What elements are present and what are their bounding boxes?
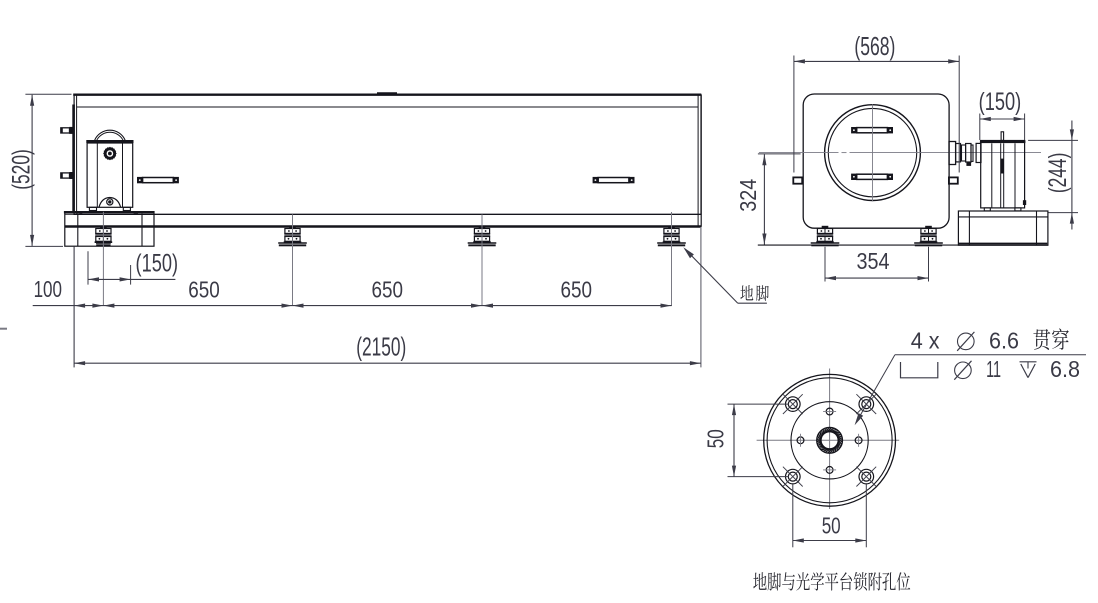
bottom bracket — [99, 198, 121, 208]
svg-text:50: 50 — [703, 429, 729, 448]
ground line — [758, 244, 1048, 246]
end feet — [822, 226, 829, 229]
svg-text:650: 650 — [372, 276, 404, 302]
left tab upper — [61, 128, 70, 133]
dim (150) pump — [979, 114, 981, 141]
dim (520) vertical — [25, 93, 71, 95]
leader di-jiao (foot) — [685, 249, 738, 303]
slot upper — [851, 127, 857, 133]
dim 354 — [824, 247, 826, 282]
svg-text:100: 100 — [34, 276, 62, 302]
svg-text:324: 324 — [735, 179, 761, 212]
pump base — [958, 211, 1048, 245]
window inner circle — [828, 108, 916, 196]
svg-text:50: 50 — [822, 513, 841, 539]
foot 2 — [289, 226, 296, 229]
hole callout leader — [856, 355, 895, 423]
base rail — [65, 213, 701, 215]
window outer circle — [825, 105, 921, 201]
svg-text:(2150): (2150) — [356, 332, 406, 362]
bolt holes — [786, 397, 801, 412]
end tab right — [949, 177, 958, 183]
svg-text:(568): (568) — [854, 31, 895, 61]
dome feet — [89, 207, 96, 210]
svg-text:11: 11 — [986, 356, 1001, 382]
connector stack — [949, 142, 956, 165]
svg-text:650: 650 — [188, 276, 220, 302]
svg-text:(150): (150) — [979, 88, 1022, 116]
dim (568) — [793, 56, 795, 173]
foot 3 — [479, 226, 486, 229]
end tab left — [793, 177, 802, 183]
handle right — [593, 177, 599, 183]
foot 4 — [668, 226, 675, 229]
svg-text:(150): (150) — [136, 249, 179, 277]
pump top stub — [1001, 132, 1004, 141]
pump connector box — [1023, 200, 1026, 205]
left mounting plate — [72, 105, 75, 213]
svg-text:(520): (520) — [8, 149, 36, 190]
dim 50 bottom — [792, 484, 794, 547]
handle left — [137, 177, 143, 183]
center hub — [817, 427, 843, 453]
svg-text:354: 354 — [857, 248, 890, 274]
main housing (side view) — [74, 95, 701, 215]
detail flange circle — [791, 402, 868, 479]
dome actuator — [95, 130, 126, 140]
left tab lower — [61, 173, 70, 178]
pump body — [981, 141, 1025, 208]
left edge tick — [0, 328, 7, 330]
end housing — [803, 94, 949, 228]
gear knob — [104, 148, 115, 159]
left clamp block — [65, 212, 154, 247]
slot lower — [851, 174, 857, 180]
caption: foot and optical platform mounting holes — [753, 572, 766, 590]
svg-text:6.8: 6.8 — [1050, 356, 1080, 382]
dim row 100 / 650s — [73, 247, 75, 368]
pump small feet — [984, 208, 990, 211]
vertical centerline — [872, 104, 874, 201]
detail crosshair — [757, 439, 819, 441]
dim 50 left — [728, 403, 790, 405]
svg-text:(244): (244) — [1044, 153, 1072, 194]
svg-text:4 x: 4 x — [911, 327, 940, 353]
horizontal centerline — [759, 152, 839, 154]
small holes — [826, 408, 833, 415]
dim 324 — [758, 153, 801, 155]
dim (2150) overall — [700, 227, 702, 367]
svg-text:6.6: 6.6 — [989, 327, 1019, 353]
svg-text:650: 650 — [560, 276, 592, 302]
dim (244) — [1028, 139, 1078, 141]
detail outer circles — [764, 374, 896, 506]
dim (150) — [87, 251, 89, 284]
foot centerlines — [102, 212, 104, 306]
foot 1 — [100, 226, 107, 229]
callout row2: cbore dia 11 depth 6.8 — [901, 362, 938, 378]
